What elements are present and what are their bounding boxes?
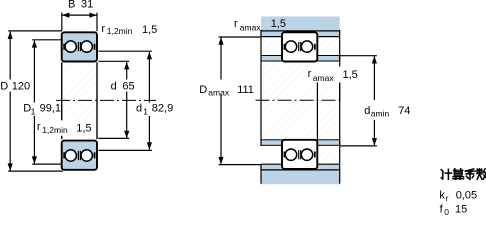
svg-text:r: r [308, 68, 312, 80]
svg-text:r: r [101, 23, 105, 35]
svg-text:amin: amin [371, 109, 390, 119]
svg-text:r: r [446, 193, 449, 203]
svg-text:1,2min: 1,2min [42, 125, 68, 135]
svg-text:0,05: 0,05 [456, 189, 477, 201]
svg-text:r: r [37, 121, 41, 133]
svg-text:1,5: 1,5 [343, 69, 358, 81]
svg-text:f: f [440, 203, 444, 215]
svg-text:k: k [439, 189, 445, 201]
svg-text:D: D [0, 81, 8, 93]
svg-text:0: 0 [444, 207, 449, 216]
svg-text:1,5: 1,5 [76, 122, 91, 134]
svg-text:1,5: 1,5 [142, 24, 157, 36]
svg-text:B: B [68, 0, 75, 11]
svg-text:amax: amax [208, 87, 230, 97]
svg-text:120: 120 [12, 81, 30, 93]
svg-text:82,9: 82,9 [152, 103, 173, 115]
svg-text:1: 1 [31, 107, 36, 117]
svg-text:65: 65 [122, 81, 134, 93]
svg-text:31: 31 [81, 0, 93, 11]
svg-text:1,5: 1,5 [271, 18, 286, 30]
svg-text:15: 15 [455, 203, 467, 215]
svg-text:d: d [364, 105, 370, 117]
svg-text:1,2min: 1,2min [107, 26, 133, 36]
svg-text:1: 1 [143, 107, 148, 117]
svg-text:74: 74 [398, 105, 410, 117]
svg-text:99,1: 99,1 [40, 103, 61, 115]
svg-text:d: d [111, 81, 117, 93]
svg-text:d: d [136, 103, 142, 115]
svg-text:amax: amax [240, 23, 262, 33]
svg-text:r: r [234, 18, 238, 30]
svg-text:amax: amax [313, 73, 335, 83]
svg-text:D: D [199, 84, 207, 96]
svg-text:111: 111 [237, 84, 254, 96]
